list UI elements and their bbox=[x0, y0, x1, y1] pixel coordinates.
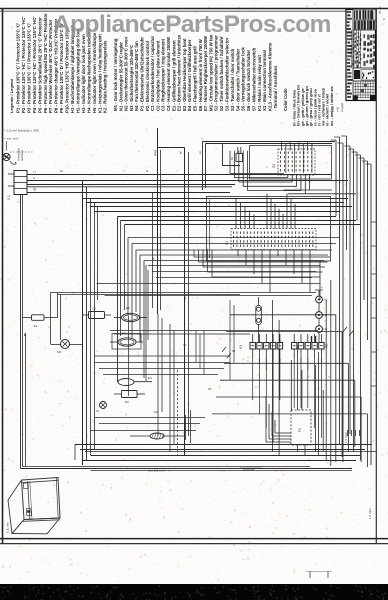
svg-text:E1: E1 bbox=[34, 324, 38, 328]
svg-text:gn/ge: gn/ge bbox=[154, 149, 157, 156]
svg-text:E2 - Bottom heat element / Unt: E2 - Bottom heat element / Unterhitze bbox=[177, 34, 182, 111]
svg-text:E5 - Flaechengrill / full area: E5 - Flaechengrill / full area grill bbox=[193, 46, 198, 111]
svg-text:K1 - Heizungsrelais / relay he: K1 - Heizungsrelais / relay heating unit bbox=[97, 34, 102, 113]
svg-text:P2 - Protektor 135°C ‘HC’ / Pr: P2 - Protektor 135°C ‘HC’ / Protector 13… bbox=[21, 16, 26, 113]
svg-text:K3: K3 bbox=[239, 345, 243, 349]
svg-text:N: N bbox=[33, 177, 35, 180]
svg-text:N4 - Fan thermostat 320-465°C: N4 - Fan thermostat 320-465°C fan bbox=[134, 41, 139, 111]
svg-text:- Terminal / Anschluss: - Terminal / Anschluss bbox=[273, 65, 278, 111]
svg-text:└ min. mm²: └ min. mm² bbox=[4, 137, 18, 141]
svg-text:S1: S1 bbox=[225, 241, 229, 245]
svg-text:H3 - Indicator light door lock: H3 - Indicator light door lock part oven bbox=[81, 34, 86, 113]
svg-text:M1 - Gear lock motor / Verrieg: M1 - Gear lock motor / Verriegelung bbox=[113, 38, 118, 111]
svg-text:+: + bbox=[321, 285, 323, 289]
svg-text:H4 - Kontrollampe Nachspuelen: H4 - Kontrollampe Nachspuelen indicator bbox=[86, 28, 91, 113]
svg-text:v=bl: v=bl bbox=[336, 107, 340, 112]
svg-text:S4 - door switch / Tuerschalte: S4 - door switch / Tuerschalter bbox=[235, 48, 240, 111]
svg-text:X1 - Main connection terminal: X1 - Main connection terminal bbox=[262, 50, 267, 111]
svg-text:P2 - Electronic clock/clock co: P2 - Electronic clock/clock control bbox=[145, 41, 150, 111]
svg-text:S3 - Funktionswahlschalter sel: S3 - Funktionswahlschalter selector bbox=[224, 37, 229, 111]
svg-text:S3 - Tuerschalter / door switc: S3 - Tuerschalter / door switch bbox=[230, 48, 235, 111]
svg-text:P3 - Protektor 135°C ‘C’ / Pro: P3 - Protektor 135°C ‘C’ / Protector 135… bbox=[26, 23, 31, 113]
svg-text:P5 - Protektor Schnellauf M2 2: P5 - Protektor Schnellauf M2 29°C ‘C’ Pr… bbox=[37, 17, 42, 113]
svg-text:P4 - Protektor 135°C ‘HC’ / Pr: P4 - Protektor 135°C ‘HC’ / Protector 13… bbox=[32, 16, 37, 113]
svg-text:N2: N2 bbox=[154, 410, 158, 414]
svg-text:H5 - Indicator light oven / Ko: H5 - Indicator light oven / Kontrollampe bbox=[92, 32, 97, 113]
svg-text:K1 - Relais / main relay unit: K1 - Relais / main relay unit bbox=[257, 55, 262, 111]
svg-text:S2: S2 bbox=[272, 164, 276, 168]
svg-text:S6 - door lock switch Schalter: S6 - door lock switch Schalter bbox=[246, 50, 251, 111]
svg-text:S5 - Verriegelungsschalter loc: S5 - Verriegelungsschalter lock bbox=[241, 47, 246, 111]
svg-text:S5: S5 bbox=[232, 349, 236, 353]
svg-text:D2: D2 bbox=[125, 400, 129, 404]
svg-text:35 10: 35 10 bbox=[378, 6, 382, 14]
svg-text:P1 - Protektor 135°C ‘C’ / Pro: P1 - Protektor 135°C ‘C’ / Protector 135… bbox=[16, 23, 21, 113]
svg-text:C1: C1 bbox=[183, 343, 187, 347]
svg-text:E4: E4 bbox=[148, 376, 152, 380]
svg-text:8: 8 bbox=[382, 18, 386, 20]
svg-text:E3: E3 bbox=[126, 306, 130, 310]
svg-text:N2 - Oven thermostat 55-300°C: N2 - Oven thermostat 55-300°C oven bbox=[124, 37, 129, 111]
svg-text:bn: bn bbox=[180, 151, 183, 154]
svg-text:PE: PE bbox=[33, 189, 37, 192]
svg-text:H2 - Kontrollampe Verriegelung: H2 - Kontrollampe Verriegelung door lock bbox=[75, 28, 80, 113]
svg-text:K1: K1 bbox=[230, 156, 234, 160]
svg-text:K2 - Relais heating / Heizungs: K2 - Relais heating / Heizungsrelais bbox=[103, 40, 108, 113]
svg-text:K2,3 - Anschlussklemme Klemme: K2,3 - Anschlussklemme Klemme bbox=[267, 42, 272, 111]
svg-text:bl: bl bbox=[146, 169, 148, 173]
svg-text:E1 - Grillheizkoerper / grill: E1 - Grillheizkoerper / grill element bbox=[171, 40, 176, 111]
svg-text:N1 - Deckenregler 55-300°C reg: N1 - Deckenregler 55-300°C regler bbox=[118, 42, 123, 111]
svg-text:ws - weiss / white ws: ws - weiss / white ws bbox=[329, 85, 334, 127]
svg-text:C2 - Kochplatte / hot plate el: C2 - Kochplatte / hot plate element bbox=[155, 40, 160, 111]
svg-text:E3 - Oberhitze Heizkoerper top: E3 - Oberhitze Heizkoerper top heat bbox=[182, 38, 187, 111]
svg-text:S7 - Mikroschalter microswitch: S7 - Mikroschalter microswitch bbox=[251, 47, 256, 111]
svg-text:S1 - Programmschalter / progra: S1 - Programmschalter / programmer bbox=[214, 35, 219, 111]
svg-text:C3: C3 bbox=[92, 307, 96, 311]
svg-text:N1: N1 bbox=[324, 298, 328, 302]
svg-text:C.E. mm: C.E. mm bbox=[6, 521, 10, 533]
svg-text:anschluss: anschluss bbox=[21, 149, 24, 161]
svg-text:Color Code: Color Code bbox=[283, 88, 288, 111]
svg-text:sw: sw bbox=[184, 297, 187, 300]
svg-text:S2 - Timer switch backen / Sch: S2 - Timer switch backen / Schaltuhr bbox=[219, 36, 224, 111]
svg-text:E7 - Hinterer Ringheizkoerper: E7 - Hinterer Ringheizkoerper 2000W bbox=[203, 35, 208, 111]
svg-text:M1: M1 bbox=[57, 350, 61, 354]
svg-text:S6: S6 bbox=[208, 387, 212, 391]
svg-text:sw: sw bbox=[199, 151, 202, 154]
svg-text:H2: H2 bbox=[324, 327, 328, 331]
svg-text:1,5 mm²: 1,5 mm² bbox=[368, 508, 372, 519]
svg-text:C3 - Ringheizkoerper / ring el: C3 - Ringheizkoerper / ring element bbox=[161, 38, 166, 111]
svg-text:E2: E2 bbox=[122, 331, 126, 335]
svg-text:C1 - Entstoerkondensator / cap: C1 - Entstoerkondensator / capacitor bbox=[150, 35, 155, 111]
svg-text:E6 - Heating element in front: E6 - Heating element in front 750 W bbox=[198, 38, 203, 111]
svg-text:h1: h1 bbox=[96, 409, 100, 413]
svg-text:1,5 mm²: 1,5 mm² bbox=[344, 432, 348, 443]
svg-text:C4 - Heating element circular: C4 - Heating element circular 2000W bbox=[166, 36, 171, 111]
svg-text:M2 - Circular low speed M2 750: M2 - Circular low speed M2 750 W fan bbox=[208, 34, 213, 111]
svg-text:P6 - Protector high speed M2 2: P6 - Protector high speed M2 29°C ‘HC’ P… bbox=[43, 13, 48, 113]
svg-text:E4 - Grill element / Grillheiz: E4 - Grill element / Grillheizkoerper bbox=[187, 39, 192, 111]
svg-text:X 1: X 1 bbox=[7, 195, 11, 200]
svg-text:Legende / Legend: Legende / Legend bbox=[9, 78, 14, 113]
svg-text:w=gnge: w=gnge bbox=[341, 102, 344, 112]
svg-text:P10- Protector 135°C ‘HD’ Prot: P10- Protector 135°C ‘HD’ Protektor 135°… bbox=[65, 27, 70, 113]
svg-text:N3 - Sicherheitsregler 320-465: N3 - Sicherheitsregler 320-465°C bbox=[129, 45, 134, 111]
svg-text:└ 1,5 mm² Zuleitung n. VDE: └ 1,5 mm² Zuleitung n. VDE bbox=[4, 129, 39, 133]
svg-text:bn: bn bbox=[60, 169, 63, 173]
svg-text:P1: P1 bbox=[298, 428, 302, 432]
svg-text:L1: L1 bbox=[33, 171, 36, 174]
svg-text:P1 - Elektronische Uhr/Zeitsch: P1 - Elektronische Uhr/Zeitschaltuhr bbox=[140, 37, 145, 111]
